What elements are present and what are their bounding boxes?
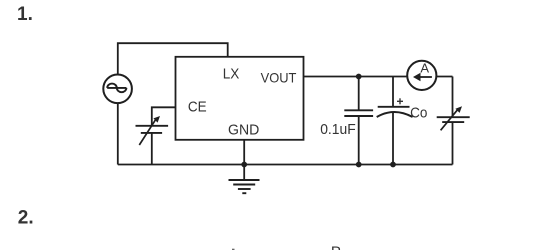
svg-text:Co: Co <box>410 105 427 122</box>
svg-text:GND: GND <box>228 121 259 138</box>
svg-text:A: A <box>420 60 429 75</box>
svg-text:CE: CE <box>188 99 207 116</box>
svg-text:0.1uF: 0.1uF <box>320 121 356 138</box>
svg-text:VOUT: VOUT <box>261 69 297 85</box>
svg-text:1.: 1. <box>17 4 33 25</box>
svg-text:P: P <box>331 244 341 250</box>
svg-text:2.: 2. <box>18 208 34 229</box>
svg-text:LX: LX <box>223 65 240 82</box>
